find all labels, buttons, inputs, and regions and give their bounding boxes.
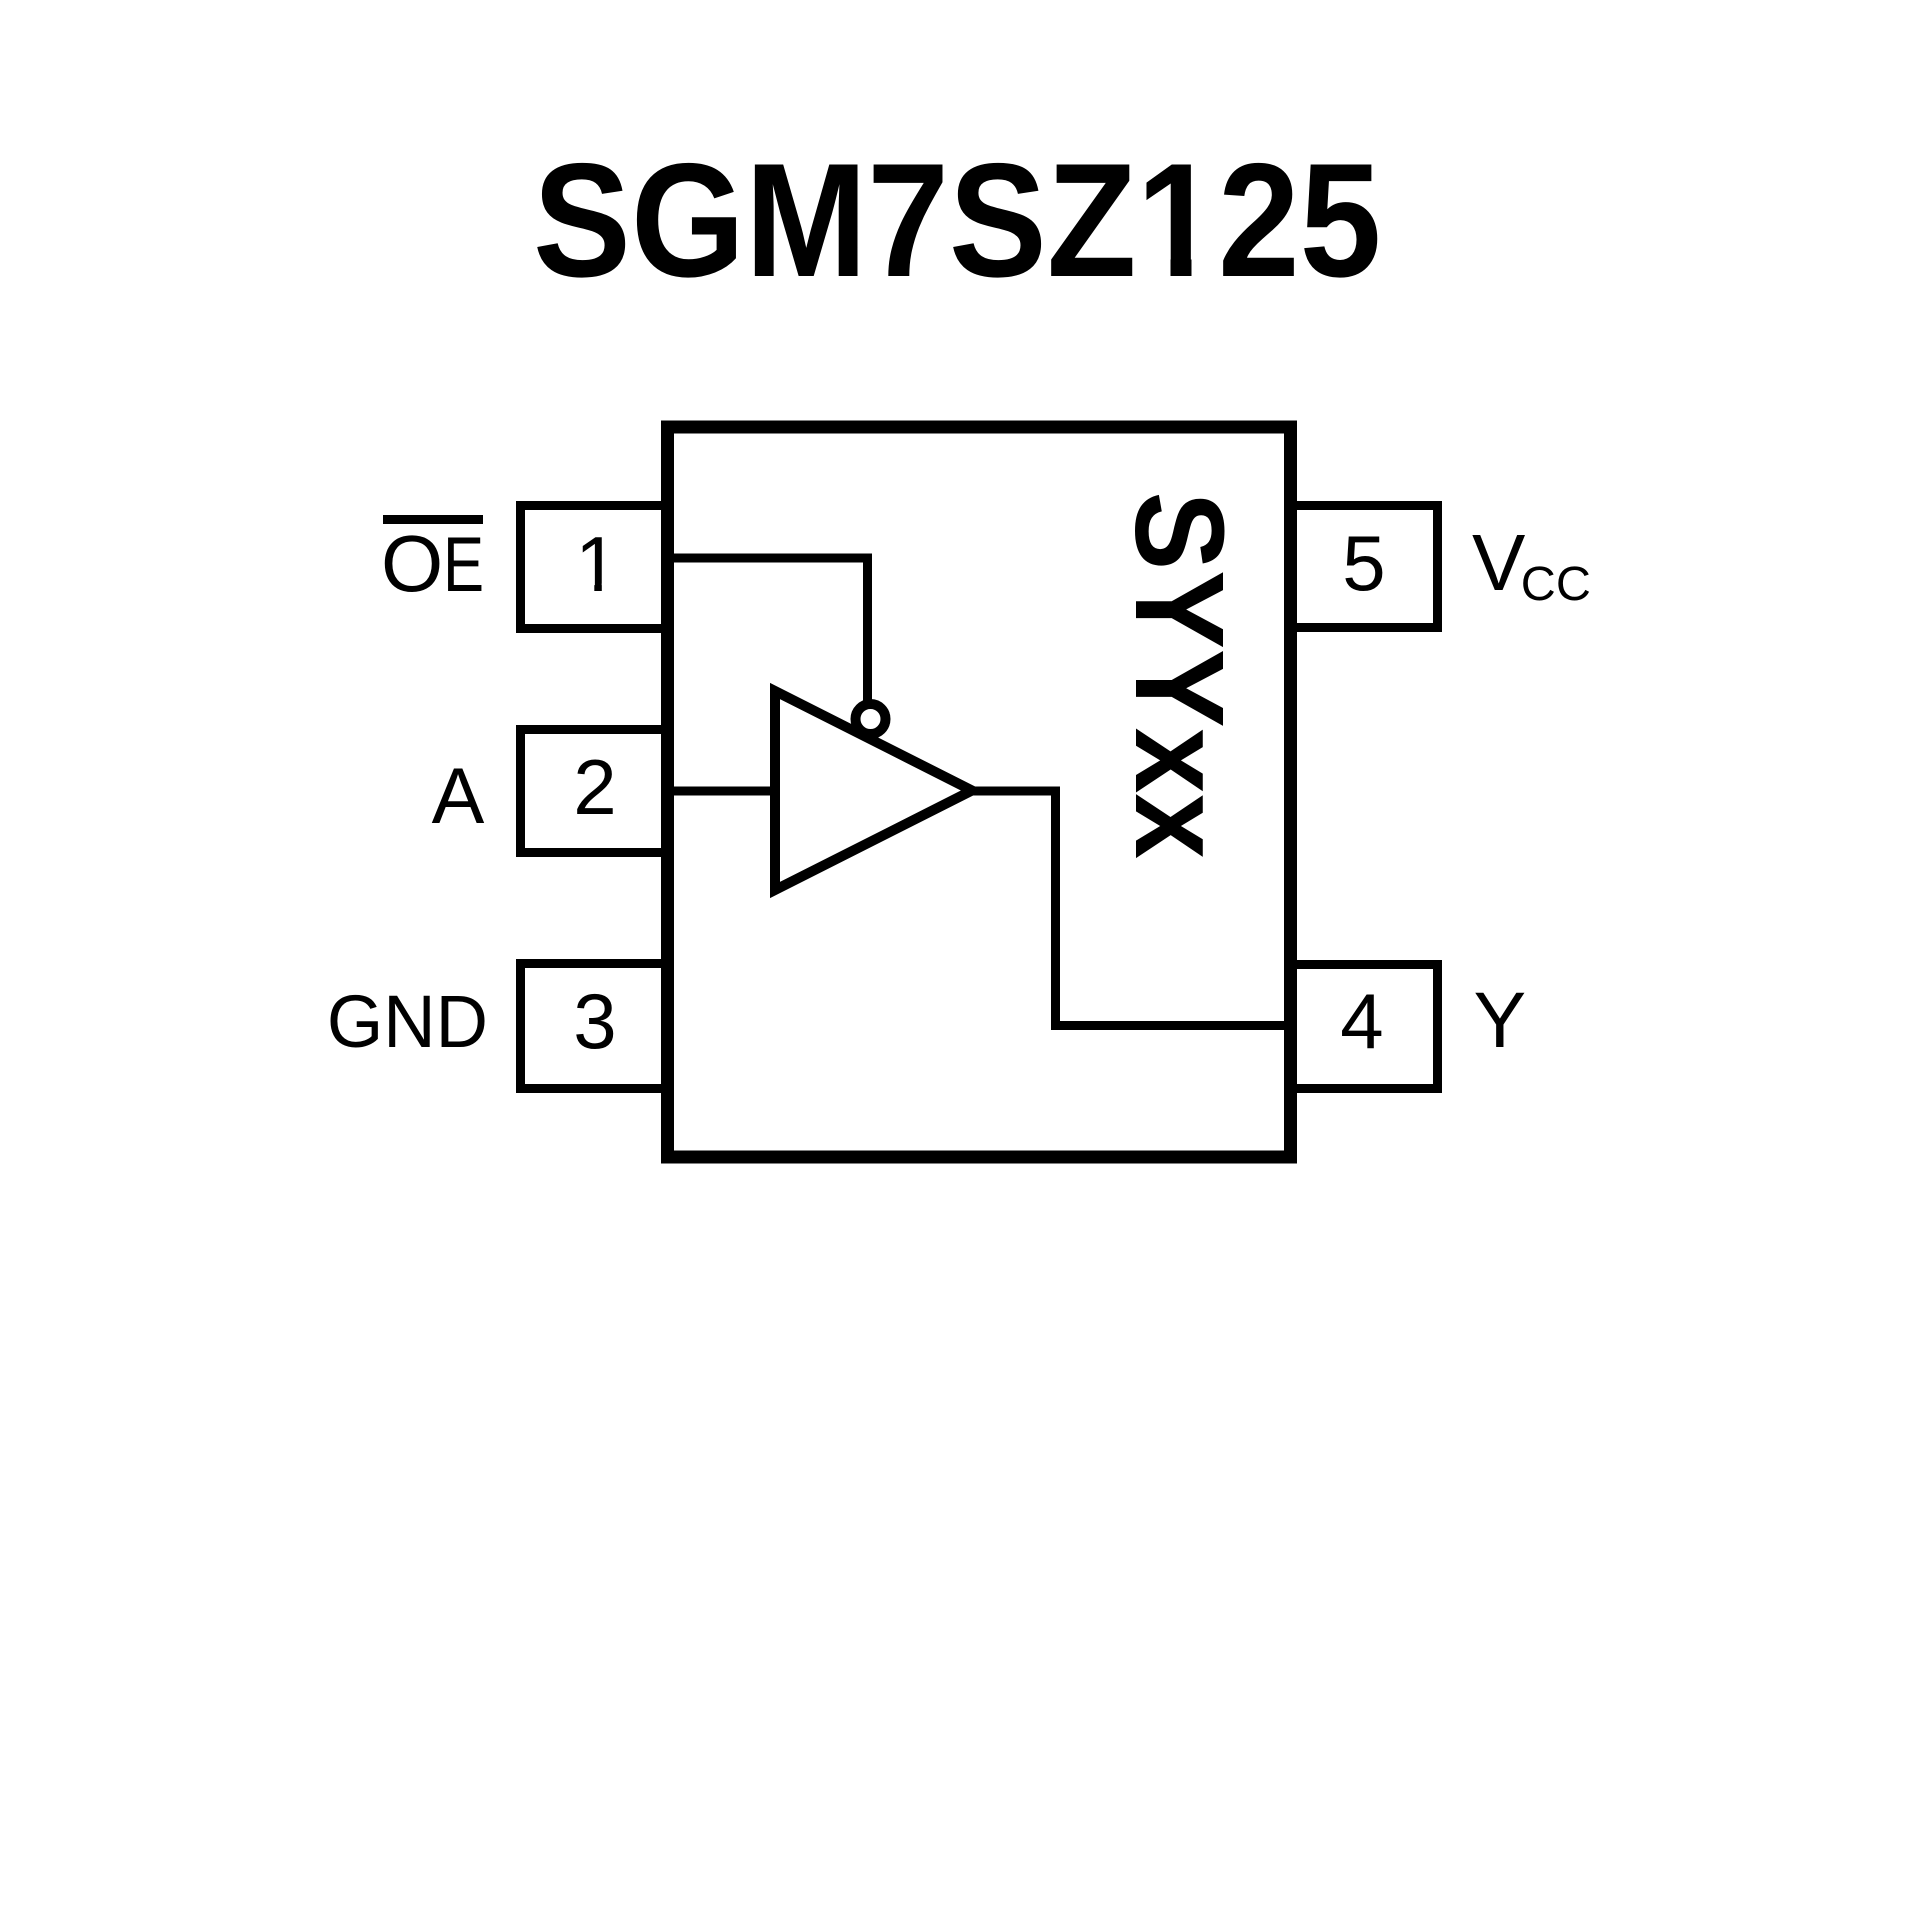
svg-text:Y: Y: [1474, 975, 1527, 1064]
svg-text:SGM7SZ125: SGM7SZ125: [533, 129, 1381, 310]
svg-text:V: V: [1472, 518, 1526, 607]
svg-text:3: 3: [573, 977, 616, 1065]
svg-text:CC: CC: [1521, 557, 1591, 611]
svg-text:GND: GND: [327, 980, 488, 1063]
svg-text:4: 4: [1340, 977, 1383, 1065]
svg-text:5: 5: [1342, 519, 1385, 607]
svg-text:2: 2: [573, 743, 616, 831]
svg-text:E: E: [443, 520, 484, 608]
svg-text:SYYxx: SYYxx: [1109, 492, 1250, 860]
svg-text:1: 1: [575, 520, 618, 608]
svg-text:A: A: [432, 751, 485, 840]
svg-text:O: O: [381, 519, 443, 608]
